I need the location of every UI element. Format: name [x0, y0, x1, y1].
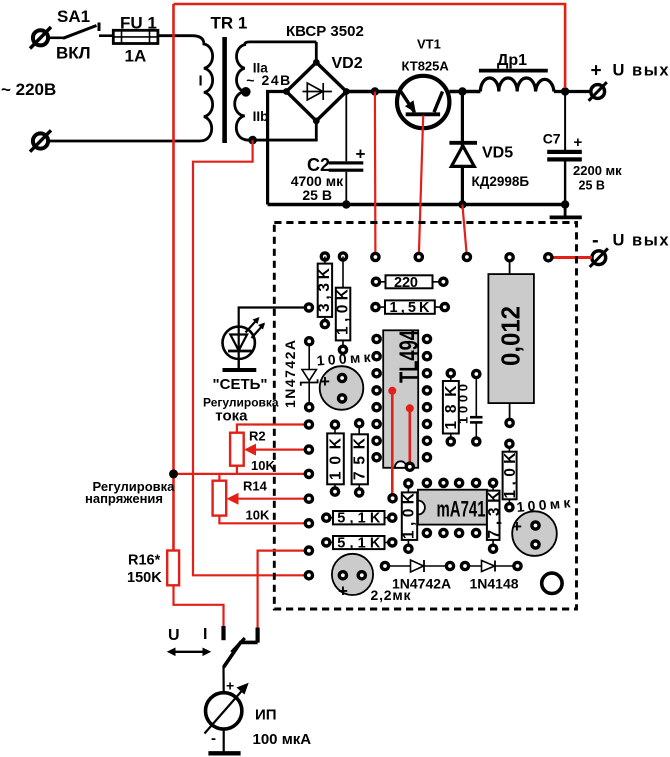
svg-text:0,012: 0,012 [496, 306, 526, 366]
svg-text:1N4148: 1N4148 [470, 576, 519, 592]
pads 2,2mk [338, 570, 349, 581]
svg-text:+: + [226, 678, 234, 694]
capacitor 2,2mk [332, 554, 373, 601]
node VD5 top [458, 87, 466, 95]
svg-text:1,0K: 1,0K [335, 288, 352, 335]
wire red to -U terminal [548, 256, 592, 259]
svg-text:25 В: 25 В [302, 187, 332, 203]
pads 5,1K lower [321, 537, 332, 548]
junction IIa/IIb [241, 87, 251, 97]
resistor 1,0K [335, 288, 352, 341]
fuse FU1 [113, 30, 158, 43]
switch wiper slash [232, 638, 245, 652]
IC TL494 [383, 330, 423, 468]
bridge inner diode [303, 83, 332, 100]
svg-text:U вых: U вых [613, 231, 670, 249]
pad 1,0K bottom [338, 345, 349, 356]
pads 1,0K right [504, 439, 515, 450]
capacitor C2 [329, 161, 364, 204]
switch SA1 lever [63, 26, 97, 39]
svg-text:C2: C2 [307, 155, 330, 175]
terminal -U out [590, 248, 608, 267]
wire bridge bottom to transformer [253, 121, 317, 140]
resistor 75K [352, 423, 369, 492]
svg-text:2200 мк: 2200 мк [573, 163, 622, 178]
junction VD5 bottom [458, 200, 466, 208]
pads 5,1K upper [321, 512, 332, 523]
svg-text:U: U [168, 627, 180, 644]
switch I contact [256, 628, 260, 643]
wire switch to fuse [99, 34, 113, 37]
pad jumper2 bottom [405, 462, 416, 473]
pads 10K [330, 419, 341, 430]
svg-text:VD2: VD2 [332, 55, 363, 72]
resistor 1,0K (right) [502, 444, 519, 507]
svg-text:R16*: R16* [128, 553, 161, 569]
svg-text:R2: R2 [249, 429, 266, 444]
wire bridge left to negative rail [268, 92, 287, 205]
pads zener [304, 336, 315, 347]
svg-text:напряжения: напряжения [85, 491, 163, 506]
svg-text:+: + [320, 372, 330, 391]
inductor Dr1 [480, 78, 554, 92]
potentiometer R2 [230, 433, 244, 466]
R2 wiper arrow [244, 444, 256, 456]
svg-text:1,0K: 1,0K [401, 492, 418, 539]
meter end bar [208, 751, 240, 755]
svg-text:тока: тока [215, 407, 248, 424]
dashed PCB box [274, 223, 576, 610]
pads 1N4742A [380, 561, 391, 572]
resistor 220 [376, 275, 443, 291]
svg-text:5,1K: 5,1K [337, 511, 381, 527]
wire red R14 bottom to pad [219, 516, 309, 524]
svg-text:R14: R14 [243, 479, 268, 494]
pads 18K [446, 368, 457, 379]
svg-text:220: 220 [394, 275, 418, 291]
svg-text:10K: 10K [328, 437, 345, 480]
wire VD5 vertical [461, 92, 464, 205]
wire red R2 top to pad [237, 425, 309, 433]
svg-text:+: + [338, 582, 348, 601]
wire top corner to bridge [315, 42, 318, 63]
capacitor 100mk (upper) [316, 349, 372, 410]
LED cathode lead [238, 359, 240, 369]
svg-text:TR 1: TR 1 [211, 14, 248, 33]
resistor 5,1K upper [326, 511, 392, 527]
mounting hole [542, 573, 562, 593]
resistor 5,1K lower [326, 536, 392, 552]
node transformer bottom [248, 136, 257, 145]
svg-text:5,1K: 5,1K [337, 536, 381, 552]
meter IP [205, 683, 249, 734]
transistor VT1 [397, 76, 449, 128]
junction C7 bottom [561, 200, 569, 208]
pads 1,0K left [403, 478, 414, 489]
svg-text:+: + [512, 517, 522, 536]
svg-text:1A: 1A [125, 47, 147, 66]
pads 220 [371, 277, 382, 288]
capacitor 1000 [456, 374, 483, 442]
svg-text:10K: 10K [246, 508, 270, 523]
pad -U out [543, 252, 554, 263]
resistor 1,0K (left of mA741) [401, 483, 418, 548]
junction node before VT1 [371, 87, 379, 95]
wire red VT1 base to pad B [419, 116, 423, 258]
pads 100mk lower [530, 520, 541, 531]
TL494 pads right [422, 334, 433, 345]
wire red R14 wiper [235, 498, 309, 500]
negative rail end bar [550, 215, 582, 219]
pads 1,5K [370, 302, 381, 313]
svg-text:1N4742A: 1N4742A [392, 576, 451, 592]
svg-text:~ 220В: ~ 220В [1, 80, 56, 99]
terminal +U out [589, 82, 607, 101]
potentiometer R14 [213, 481, 227, 516]
node C2 top wire [345, 92, 347, 162]
LED end bar [223, 368, 257, 372]
pads 1N4148 [460, 561, 471, 572]
transformer TR1 core [222, 37, 227, 143]
wire red R2 wiper [252, 449, 309, 451]
wire switch to meter [222, 667, 224, 693]
wire red top loop [174, 4, 566, 88]
svg-text:КД2998Б: КД2998Б [472, 174, 530, 189]
resistor 1,0K leads [342, 257, 344, 350]
red jumper 1 [388, 387, 396, 498]
svg-text:IIb: IIb [253, 109, 269, 124]
resistor 3,3K leads [324, 257, 326, 325]
svg-text:+: + [591, 61, 602, 82]
junction C7 top [561, 87, 569, 95]
pads 1000 [471, 369, 482, 380]
resistor 10K (pcb) [327, 425, 344, 492]
main rail VT1 to Dr1 [449, 90, 480, 93]
capacitor C7 [547, 150, 582, 205]
switch U contact [221, 626, 225, 640]
svg-text:VT1: VT1 [417, 37, 441, 52]
wire X1 to switch [49, 36, 65, 39]
svg-text:7,3K: 7,3K [486, 491, 503, 539]
switch SA1 fixed contact [98, 23, 101, 32]
terminal X1 (~220V top) [30, 27, 51, 49]
svg-text:"СЕТЬ": "СЕТЬ" [213, 376, 268, 393]
wire red rail node to pad A [374, 92, 377, 258]
IC mA741 [418, 490, 487, 525]
wire red R2 bottom / R14 top rail [174, 466, 309, 481]
svg-text:U вых: U вых [613, 61, 670, 79]
svg-text:10K: 10K [251, 458, 275, 473]
wire red pad to switch I [258, 551, 309, 628]
secondary winding IIa [237, 42, 317, 92]
svg-text:75K: 75K [352, 437, 369, 480]
red jumper 2 [406, 404, 414, 467]
svg-text:ИП: ИП [255, 707, 277, 724]
rail Dr1 to output [554, 90, 591, 93]
svg-text:I: I [203, 626, 207, 643]
shunt 0,012 [488, 257, 534, 423]
svg-text:25 В: 25 В [579, 179, 605, 193]
svg-text:Др1: Др1 [497, 52, 527, 69]
switch lever [224, 642, 258, 667]
pad LED wire [304, 302, 315, 313]
wire red R16 bottom to switch U [174, 585, 224, 627]
junction red node [169, 469, 178, 478]
PCB pad row top [320, 251, 331, 262]
R14 wiper arrow [227, 493, 239, 505]
svg-text:TL494: TL494 [394, 330, 424, 383]
wire red from transformer (line B) [193, 140, 309, 575]
LED HL1 [223, 317, 266, 359]
pads 100mk upper [337, 373, 348, 384]
mA741 pads top [422, 478, 433, 489]
pads 7,3K [488, 478, 499, 489]
pads 0,012 [504, 252, 515, 263]
svg-text:~ 24В: ~ 24В [246, 72, 290, 88]
svg-text:1,5K: 1,5K [390, 300, 431, 316]
resistor 7,3K [486, 483, 503, 549]
diode 1N4742A horizontal [385, 560, 450, 572]
svg-text:-: - [211, 730, 216, 747]
resistor 18K [443, 373, 460, 441]
capacitor 100mk (lower) [512, 494, 572, 556]
bridge rectifier VD2 diamond [286, 62, 346, 121]
pads 75K [354, 418, 365, 429]
diode 1N4148 [465, 561, 518, 572]
svg-text:VD5: VD5 [482, 145, 513, 162]
meter bottom wire [223, 729, 225, 751]
terminal X2 (~220V bottom) [30, 130, 51, 151]
svg-text:КВСР 3502: КВСР 3502 [286, 23, 364, 40]
pad 3,3K bottom [320, 319, 331, 330]
secondary winding IIb [235, 92, 315, 140]
svg-text:SA1: SA1 [57, 7, 90, 26]
svg-text:КТ825А: КТ825А [402, 59, 450, 74]
diode VD5 [449, 143, 477, 167]
negative rail [268, 203, 565, 206]
wire red left vertical [172, 4, 175, 551]
junction C2 bottom [342, 200, 350, 208]
svg-text:-: - [592, 230, 599, 252]
wire C7 top [564, 92, 566, 152]
resistor 1,5K [376, 300, 445, 316]
wire LED to pad [239, 308, 309, 370]
U/I double arrow [167, 648, 211, 657]
bridge corner dots [313, 59, 320, 66]
svg-text:I: I [199, 73, 203, 90]
negative rail end stub [564, 205, 567, 216]
wire red VD5 node to pad C [462, 205, 467, 258]
TL494 pads left [371, 334, 382, 345]
resistor 3,3K [316, 264, 333, 317]
svg-text:3,3K: 3,3K [316, 267, 333, 312]
svg-text:+: + [574, 134, 583, 151]
wire fuse to transformer + primary winding I [49, 36, 213, 141]
resistor R16 [167, 551, 179, 586]
zener 1N4742A vertical [282, 340, 318, 408]
main positive rail left part [346, 90, 397, 93]
svg-text:ВКЛ: ВКЛ [56, 44, 91, 63]
svg-text:150K: 150K [127, 570, 162, 586]
left column pads [304, 419, 315, 430]
svg-text:C7: C7 [543, 130, 561, 146]
pad jumper1 bottom [387, 493, 398, 504]
svg-text:mA741: mA741 [437, 497, 486, 522]
mA741 pads bottom [422, 528, 433, 539]
inductor Dr1 core bar [479, 69, 548, 73]
svg-text:100 мкА: 100 мкА [253, 731, 312, 748]
svg-text:1N4742A: 1N4742A [282, 340, 298, 408]
svg-text:+: + [356, 145, 366, 164]
svg-text:1,0K: 1,0K [502, 452, 519, 499]
